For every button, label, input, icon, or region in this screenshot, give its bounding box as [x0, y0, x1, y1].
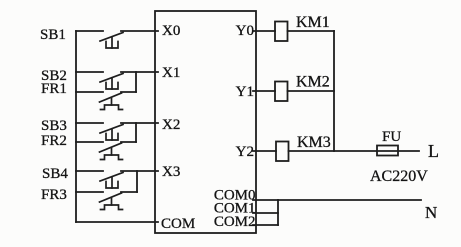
svg-text:N: N [425, 203, 437, 222]
svg-text:FR2: FR2 [41, 133, 67, 149]
svg-text:KM2: KM2 [296, 74, 330, 91]
svg-text:X1: X1 [162, 65, 180, 81]
svg-text:SB4: SB4 [42, 166, 68, 182]
svg-text:AC220V: AC220V [370, 168, 428, 185]
svg-text:FR1: FR1 [41, 81, 67, 97]
svg-text:X3: X3 [162, 164, 180, 180]
svg-text:SB3: SB3 [41, 118, 67, 134]
svg-text:Y1: Y1 [236, 84, 254, 100]
svg-text:Y2: Y2 [236, 144, 254, 160]
svg-text:Y0: Y0 [236, 23, 254, 39]
svg-text:FU: FU [382, 129, 401, 145]
svg-text:KM3: KM3 [297, 134, 331, 151]
svg-text:L: L [428, 141, 439, 161]
svg-text:COM: COM [161, 216, 195, 232]
svg-text:X0: X0 [162, 23, 180, 39]
svg-text:KM1: KM1 [296, 14, 330, 31]
svg-text:COM2: COM2 [214, 214, 256, 230]
svg-text:X2: X2 [162, 117, 180, 133]
svg-text:SB1: SB1 [40, 27, 66, 43]
svg-text:FR3: FR3 [41, 187, 67, 203]
